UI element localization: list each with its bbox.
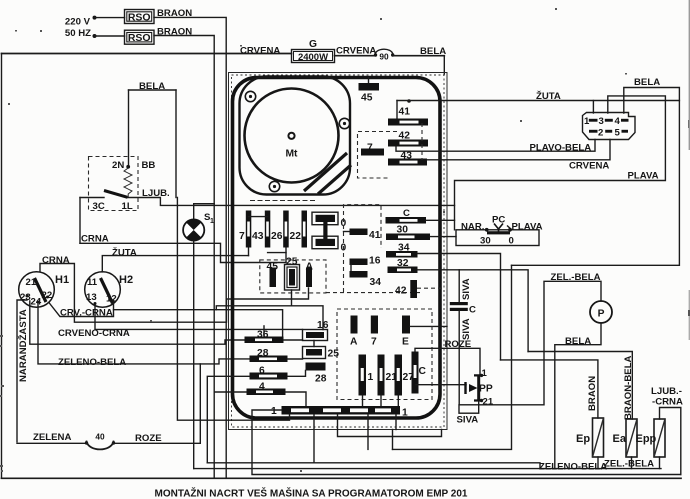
wire ZUTA: H2 top to bar7 — [102, 256, 248, 272]
svg-text:ZELENO-BELA: ZELENO-BELA — [539, 462, 607, 473]
svg-text:7: 7 — [371, 337, 377, 348]
wire CRVENA main y53.5 — [2, 53, 292, 55]
contact 0 lower — [312, 236, 338, 249]
wire BELA box top — [129, 89, 177, 91]
svg-text:1: 1 — [482, 368, 488, 379]
svg-text:Ea: Ea — [613, 433, 627, 445]
svg-text:1: 1 — [402, 408, 408, 419]
H2 lever — [101, 278, 113, 302]
svg-text:SIVA: SIVA — [461, 278, 472, 300]
wire 6 right stub to 28bar — [288, 371, 306, 377]
svg-text:ROZE: ROZE — [135, 433, 162, 444]
link bar between 0 contacts — [323, 222, 327, 239]
svg-text:25: 25 — [286, 257, 298, 268]
wire PP bottom — [479, 281, 601, 405]
wire bottom bar left to LJUB-CRNA bus — [252, 410, 681, 475]
wire Epp top to LJUB-CRNA — [660, 408, 681, 475]
screw hole bottom — [269, 181, 279, 191]
motor plate bottom hatch — [250, 200, 316, 202]
heater Ep — [593, 418, 604, 457]
svg-text:H2: H2 — [119, 274, 133, 286]
svg-text:MONTAŽNI NACRT VEŠ MAŠINA SA P: MONTAŽNI NACRT VEŠ MAŠINA SA PROGRAMATOR… — [155, 487, 468, 499]
wire bus y462.8 — [207, 463, 540, 469]
wire 36 right stub — [284, 339, 303, 341]
svg-text:22: 22 — [290, 231, 302, 242]
wire CRNA2: H1 top — [40, 264, 309, 323]
wire heater bottoms — [598, 457, 660, 469]
svg-text:2400W: 2400W — [298, 52, 328, 63]
pressure switch PP — [477, 375, 480, 402]
contact 27 lower — [395, 355, 403, 396]
wire capacitor top riser — [458, 270, 460, 302]
svg-text:40: 40 — [95, 432, 105, 442]
svg-text:13: 13 — [86, 292, 97, 303]
wire CRVENO-CRNA — [30, 301, 245, 344]
SECTION: bottom right — [194, 270, 683, 475]
svg-text:NAR.: NAR. — [461, 222, 484, 233]
wire P bottom BELA — [555, 323, 601, 469]
svg-text:PLAVA: PLAVA — [512, 222, 543, 233]
contact bar 43 vertical — [265, 211, 271, 248]
thermal cutout BB dashed box — [89, 157, 139, 211]
SECTION: left heater box — [80, 81, 455, 469]
svg-text:220 V: 220 V — [65, 17, 91, 28]
svg-text:NARANDŽASTA: NARANDŽASTA — [17, 309, 29, 382]
dashed box around 7/42/43 — [358, 132, 398, 179]
wire C bar to PC — [426, 219, 455, 221]
SECTION: H circles — [17, 247, 309, 450]
wire H2 pin12 long to 36-bar — [114, 310, 283, 337]
wire riser x314 — [313, 415, 315, 463]
screw hole top-left — [245, 91, 255, 101]
svg-text:SIVA: SIVA — [457, 415, 479, 426]
svg-text:1: 1 — [271, 406, 277, 417]
contact 7 top — [361, 149, 384, 156]
wire link 7-43 top — [249, 216, 268, 218]
svg-text:LJUB.-: LJUB.- — [651, 386, 682, 397]
wire 41 to pin1 and right edge — [397, 101, 679, 266]
signal lamp S1 — [183, 219, 204, 240]
SECTION: programmer — [229, 73, 448, 430]
node N terminal dot — [93, 34, 97, 38]
PC symbol bar — [487, 231, 510, 234]
dashed box around 45/25/A — [260, 260, 326, 293]
svg-text:21: 21 — [26, 277, 37, 288]
wire link 43-26 bottom — [268, 252, 286, 254]
thermostat 90 — [375, 49, 393, 54]
svg-text:28: 28 — [315, 374, 327, 385]
screw hole right — [339, 118, 349, 128]
svg-text:BB: BB — [142, 160, 156, 171]
link 16box-25box — [313, 341, 315, 347]
wire BELA box right down to LJUB wire — [175, 90, 177, 198]
motor Mt circle — [245, 89, 339, 183]
wire S1 bottom long down — [193, 241, 195, 469]
svg-text:2N: 2N — [112, 160, 124, 171]
node 2N dot — [126, 165, 130, 169]
wire BELA box left down to node 2N — [128, 90, 130, 165]
wire pin3 net — [455, 96, 666, 230]
resistor BB zigzag — [124, 168, 132, 198]
svg-text:1L: 1L — [122, 201, 133, 212]
svg-text:RSO: RSO — [128, 12, 151, 24]
interference filter RSO 1 — [125, 10, 155, 24]
svg-text:CRVENA: CRVENA — [569, 161, 609, 172]
wire riser x396 — [395, 415, 397, 430]
wire bar26 riser — [285, 248, 287, 263]
svg-text:C: C — [469, 305, 476, 316]
contact 42 — [388, 140, 428, 147]
svg-text:90: 90 — [379, 52, 389, 62]
svg-text:CRVENO-CRNA: CRVENO-CRNA — [58, 328, 130, 339]
SECTION: top supply — [2, 8, 447, 478]
svg-text:PP: PP — [479, 384, 493, 395]
svg-text:21: 21 — [483, 397, 494, 408]
svg-text:CRVENA: CRVENA — [240, 46, 280, 57]
svg-text:1: 1 — [210, 218, 214, 225]
svg-text:16: 16 — [369, 256, 381, 267]
H1 lever — [35, 278, 47, 302]
wire G to thermostat — [335, 55, 376, 57]
svg-text:Epp: Epp — [636, 433, 657, 445]
risers 1/21/27 to bottom bar — [363, 396, 399, 407]
wire PLAVO-BELA from 42 contact to pin2 — [396, 140, 595, 152]
svg-text:5: 5 — [615, 128, 621, 139]
wire 30 bar to PC box — [430, 236, 456, 238]
svg-text:BELA: BELA — [420, 46, 446, 57]
heater Epp — [654, 419, 665, 457]
svg-text:22: 22 — [42, 290, 53, 301]
SIVA stub box — [459, 405, 479, 413]
wire LJUB: 1L to motor area — [128, 198, 455, 206]
interference filter RSO 2 — [125, 30, 155, 44]
wire thermostat to BELA corner — [393, 55, 444, 57]
svg-text:-CRNA: -CRNA — [652, 397, 683, 408]
svg-text:3: 3 — [599, 116, 604, 127]
svg-text:BRAON-BELA: BRAON-BELA — [623, 355, 634, 420]
wire bar7 riser — [248, 248, 250, 256]
contact C lower — [412, 352, 419, 394]
wire contact41 box — [396, 101, 398, 119]
contact 41 mid — [350, 229, 368, 236]
svg-text:SIVA: SIVA — [461, 318, 472, 340]
svg-text:H1: H1 — [55, 274, 69, 286]
svg-text:42: 42 — [395, 286, 407, 297]
wire 4 left stub — [214, 391, 246, 393]
svg-text:BELA: BELA — [634, 77, 660, 88]
wire casing bottom riser — [392, 430, 394, 450]
contact 43 top — [388, 159, 427, 166]
contact 45 top — [368, 78, 370, 84]
pin bar 2l — [589, 130, 598, 133]
contact bar 22 vertical — [302, 211, 308, 248]
motor mounting plate — [240, 77, 351, 195]
pressure switch P circle — [590, 301, 612, 323]
wire riser x368 — [367, 415, 369, 450]
pin bar 3-4 — [605, 119, 613, 122]
pin bar 5r — [622, 130, 629, 133]
svg-text:ZEL.-BELA: ZEL.-BELA — [604, 459, 654, 470]
wire 28 right stub — [288, 358, 303, 360]
svg-text:24: 24 — [31, 297, 42, 308]
wire ROZE to PP pin1 — [415, 348, 480, 374]
wire ZEL-BELA bottom bus — [194, 468, 661, 470]
svg-text:1: 1 — [368, 372, 374, 383]
svg-text:CRVENA: CRVENA — [336, 46, 376, 57]
heater Ea — [626, 419, 637, 457]
svg-text:ŽUTA: ŽUTA — [112, 247, 137, 259]
svg-text:RSO: RSO — [128, 32, 151, 44]
wire 3C stub — [80, 197, 104, 199]
contact 21 lower — [378, 355, 385, 396]
contact 41 — [388, 119, 428, 126]
node junction dot 41 — [407, 99, 411, 103]
thermostat 40 — [85, 441, 88, 444]
motor shaft — [288, 133, 294, 139]
dashed bottom group box — [337, 309, 432, 400]
wire ZELENA bottom — [17, 442, 86, 444]
svg-text:PLAVA: PLAVA — [628, 171, 659, 182]
contact bar 26 vertical — [283, 211, 289, 248]
svg-text:3C: 3C — [93, 201, 105, 212]
svg-text:7: 7 — [239, 231, 245, 242]
node L terminal dot — [93, 16, 97, 20]
wire arm to PP arrow — [416, 384, 466, 386]
pin bar 2-5 — [605, 130, 612, 133]
svg-text:41: 41 — [369, 230, 381, 241]
svg-text:P: P — [598, 309, 605, 320]
svg-text:CRNA: CRNA — [42, 255, 70, 266]
wire BELA pin4 — [624, 88, 680, 114]
svg-text:ZEL.-BELA: ZEL.-BELA — [551, 272, 601, 283]
wire H2 pin13 down to 16-box — [95, 305, 303, 329]
switch H2 — [85, 272, 121, 308]
svg-text:C: C — [419, 366, 427, 377]
svg-text:Mt: Mt — [285, 149, 298, 160]
wire 3C down (CRNA net) — [79, 198, 81, 244]
wire riser x289.5 via y420 to x178 — [177, 198, 289, 421]
dashed line long — [326, 292, 420, 294]
wire 16-34 link — [350, 265, 352, 272]
svg-text:26: 26 — [271, 231, 283, 242]
wire N to RSO2 — [95, 35, 125, 37]
contact bar 7 vertical — [246, 211, 252, 248]
svg-text:2: 2 — [598, 128, 603, 139]
programmer unit thick rounded border — [233, 78, 441, 419]
wire ROZE bottom — [114, 364, 201, 443]
wire CRVENA from 43 contact to pin5 — [427, 140, 610, 160]
pin bar 4r — [621, 119, 629, 122]
wire ZELENO-BELA left — [38, 304, 250, 364]
SECTION: contacts — [207, 78, 447, 463]
wire NARANDZASTA — [17, 300, 27, 442]
svg-text:30: 30 — [480, 236, 491, 247]
wire 41mid left stub — [344, 231, 350, 233]
programmer outer casing — [229, 73, 448, 430]
wire BRAON1: RSO1 to vertical x227 — [154, 17, 226, 478]
wire left border vertical — [1, 54, 3, 479]
contact 16 mid — [350, 259, 368, 266]
svg-text:45: 45 — [361, 93, 373, 104]
svg-text:41: 41 — [399, 107, 411, 118]
svg-text:11: 11 — [87, 277, 98, 288]
wire capacitor bottom riser — [458, 311, 460, 405]
heater G 2400W box — [292, 50, 335, 63]
svg-text:Ep: Ep — [576, 433, 590, 445]
wire CRNA horizontal — [80, 243, 286, 262]
svg-text:0: 0 — [509, 236, 514, 247]
wire riser x337.5 — [338, 415, 442, 437]
contact 34 mid — [350, 271, 368, 278]
wire 4 right stub to bottom bar — [286, 392, 307, 406]
connector body — [583, 113, 636, 140]
switch lever 2N-1L — [104, 191, 128, 198]
capacitor C — [450, 302, 468, 305]
wire BRAON2: RSO2 to vertical x210 down to S1 — [154, 36, 214, 479]
svg-text:43: 43 — [252, 231, 264, 242]
svg-text:A: A — [350, 337, 358, 348]
wire BRAON-BELA — [528, 352, 632, 420]
switch H1 — [19, 272, 55, 308]
contact 0 upper — [312, 212, 338, 225]
wire 25box bottom wire — [216, 290, 323, 330]
wire 32bar right to BRAON-BELA — [418, 270, 529, 352]
PC contact dots — [485, 228, 489, 232]
svg-text:ZELENA: ZELENA — [33, 432, 71, 443]
svg-text:BRAON: BRAON — [587, 376, 598, 411]
dashed box mid group — [344, 205, 382, 292]
wire 34bar right to BRAON — [417, 254, 500, 360]
svg-text:BELA: BELA — [565, 336, 591, 347]
PP arrow — [464, 382, 466, 394]
wire BELA net down mid — [393, 265, 512, 449]
wire BRAON — [501, 360, 598, 418]
svg-text:ZELENO-BELA: ZELENO-BELA — [58, 357, 126, 368]
wire E bottom to casing — [410, 325, 447, 327]
wire 36 riser — [263, 326, 265, 337]
svg-text:23: 23 — [20, 292, 31, 303]
svg-text:50 HZ: 50 HZ — [65, 28, 91, 39]
wire branch to S1 — [194, 204, 215, 222]
pin bar 1-3 — [589, 119, 598, 122]
wire BELA down into casing — [443, 56, 445, 74]
svg-text:34: 34 — [370, 277, 382, 288]
wire CRV.-CRNA U loop — [50, 301, 114, 317]
wire L to RSO1 — [95, 17, 125, 19]
svg-text:E: E — [402, 337, 409, 348]
dashed stub 42 right — [417, 287, 442, 289]
motor bracket diagonals — [304, 153, 347, 191]
wire 6 left stub — [207, 376, 249, 463]
PC symbol Y — [494, 224, 503, 232]
svg-text:CRV.-CRNA: CRV.-CRNA — [60, 308, 113, 319]
SECTION: right connector — [393, 77, 680, 449]
contact 1 lower — [359, 355, 367, 396]
pressure chamber PC box — [456, 230, 539, 246]
wire bottom border — [2, 477, 682, 479]
svg-text:4: 4 — [615, 116, 621, 127]
svg-text:G: G — [309, 39, 317, 50]
wire pin1 riser — [592, 101, 594, 114]
